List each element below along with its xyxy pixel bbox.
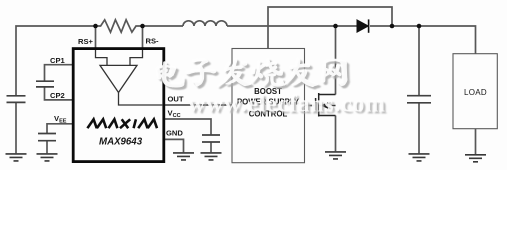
LOAD bottom wire [475,129,477,155]
ground (GND pin) [173,153,194,160]
output cap C_out top wire [418,26,420,96]
watermark 电子发烧友网 [156,58,349,89]
svg-text:OUT: OUT [168,95,184,104]
gate wire from boost box [305,105,316,107]
node RS- junction dot [140,24,145,29]
svg-text:LOAD: LOAD [464,88,487,97]
ground (C_vee) [37,154,58,161]
capacitor C_in plates [7,96,26,103]
node RS+ junction dot [93,24,98,29]
node output cap junction dot [417,24,422,29]
wire: input left vertical and top run [16,26,96,96]
MOSFET Q1 [316,93,336,117]
ground (MOSFET source) [325,152,346,159]
Vcc cap to ground [210,142,212,152]
svg-text:RS-: RS- [146,37,160,46]
capacitor C_in wires [15,102,17,153]
capacitor C_vcc plates [202,135,220,142]
op-amp chip U1 MAX9643 box [73,49,164,162]
CP flying cap lower wire to CP2 pin [45,87,73,100]
boost control box U2 [232,49,305,163]
Vcc pin wire and cap drop [165,119,212,135]
logo MAXIM [87,119,157,128]
watermark www.elecfans.com [188,92,387,120]
Q1 source stub [319,115,336,117]
MOSFET drain vertical [335,26,337,95]
inductor L1 humps [183,21,227,26]
svg-text:www.elecfans.com: www.elecfans.com [188,92,385,118]
resistor R_sense zigzag [96,20,143,32]
wire: RS- vertical [142,26,144,49]
wire: feedback line over the top [268,7,392,49]
wire: inductor to switch node [227,25,336,27]
ground (C_out) [409,154,430,161]
Q1 body arrow [321,102,329,109]
ground (LOAD) [465,155,486,162]
ground (C_in) [6,154,27,161]
node switch (drain) junction dot [333,24,338,29]
VEE cap to ground [46,141,48,154]
OUT pin wire to boost box [165,104,233,106]
VEE pin wire [47,124,73,134]
svg-text:VCC: VCC [168,109,181,120]
MOSFET source to ground [335,116,337,152]
U1 internal input jog left [96,50,108,65]
GND pin wire [165,139,184,152]
svg-text:CP2: CP2 [50,91,65,100]
capacitor C_vee plates [38,134,56,141]
capacitor C_out plates [407,96,431,103]
svg-text:VEE: VEE [54,114,67,125]
U1 internal input jog right [130,50,143,65]
wire: between sense resistor and inductor [143,25,184,27]
svg-text:MAX9643: MAX9643 [99,136,143,147]
Q1 gate bar [315,98,317,112]
wire: RS+ vertical [95,26,97,49]
LOAD box [453,54,497,129]
diode D1 [357,19,369,32]
op-amp triangle [100,65,137,92]
Q1 drain stub [319,94,336,96]
Q1 body stub [319,105,336,107]
wire: diode cathode to output node [370,26,476,54]
CP1 pin wire [45,65,73,82]
node diode cathode junction dot [390,24,395,29]
output cap to ground [418,103,420,154]
svg-text:CP1: CP1 [50,56,66,65]
U1 internal output wire [119,93,164,106]
wire: switch node to diode anode [336,25,357,27]
Q1 channel bar [318,93,320,117]
capacitor C_cp plates (flying cap) [36,81,54,87]
ground (C_vcc) [201,153,222,160]
svg-text:RS+: RS+ [78,37,94,46]
svg-text:GND: GND [166,129,183,138]
